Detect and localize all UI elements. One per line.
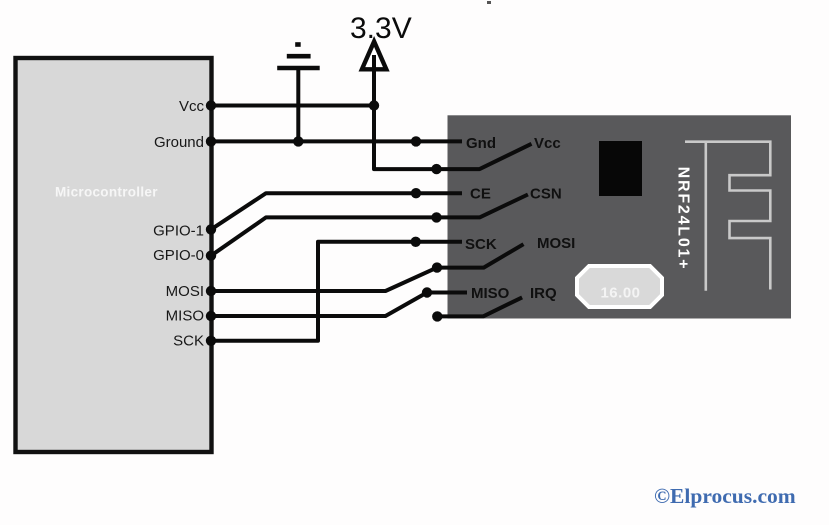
svg-text:©Elprocus.com: ©Elprocus.com (654, 484, 796, 508)
svg-text:MISO: MISO (166, 307, 204, 324)
svg-text:NRF24L01+: NRF24L01+ (675, 167, 692, 271)
svg-text:3.3V: 3.3V (350, 12, 412, 45)
svg-text:Vcc: Vcc (534, 135, 561, 152)
svg-text:Vcc: Vcc (179, 98, 205, 115)
svg-text:MOSI: MOSI (537, 235, 575, 252)
svg-text:16.00: 16.00 (600, 285, 640, 302)
svg-text:IRQ: IRQ (530, 285, 557, 302)
svg-text:Ground: Ground (154, 134, 204, 151)
svg-text:MOSI: MOSI (166, 283, 204, 300)
svg-text:MISO: MISO (471, 285, 510, 302)
svg-text:GPIO-0: GPIO-0 (153, 247, 204, 264)
svg-text:CSN: CSN (530, 186, 562, 203)
svg-text:SCK: SCK (465, 236, 497, 253)
svg-text:SCK: SCK (173, 333, 204, 350)
svg-text:Gnd: Gnd (466, 135, 496, 152)
svg-text:CE: CE (470, 186, 491, 203)
svg-text:Microcontroller: Microcontroller (55, 185, 158, 200)
svg-text:GPIO-1: GPIO-1 (153, 223, 204, 240)
